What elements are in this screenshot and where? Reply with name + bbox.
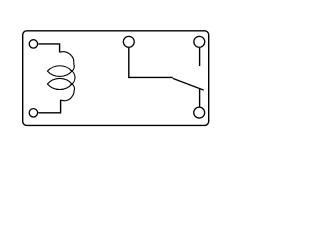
coil L1 entry hook bbox=[60, 52, 75, 71]
coil L1 loop 1 bbox=[47, 66, 72, 77]
coil L1 connector arc bbox=[70, 70, 75, 86]
coil L1 loop 2 bbox=[47, 78, 72, 89]
switch NC contact pin (top-right terminal) bbox=[194, 36, 205, 47]
stub wire from top-right contact pin bbox=[199, 48, 201, 66]
relay body outline bbox=[23, 31, 209, 126]
wire from top-left pin to coil top bbox=[38, 44, 59, 52]
coil L1 exit hook bbox=[61, 84, 75, 101]
wire from common pin down and right to switch pivot bbox=[129, 48, 173, 78]
stub wire from blade to bottom-right pin bbox=[199, 88, 201, 107]
switch blade (diagonal arm) bbox=[173, 78, 204, 90]
coil pin 1 (top-left terminal) bbox=[29, 40, 37, 48]
switch common pin (top-middle terminal) bbox=[123, 36, 134, 47]
switch NO contact pin (bottom-right terminal) bbox=[194, 107, 205, 118]
wire from coil bottom to bottom-left pin bbox=[38, 100, 60, 113]
coil pin 2 (bottom-left terminal) bbox=[29, 109, 37, 117]
